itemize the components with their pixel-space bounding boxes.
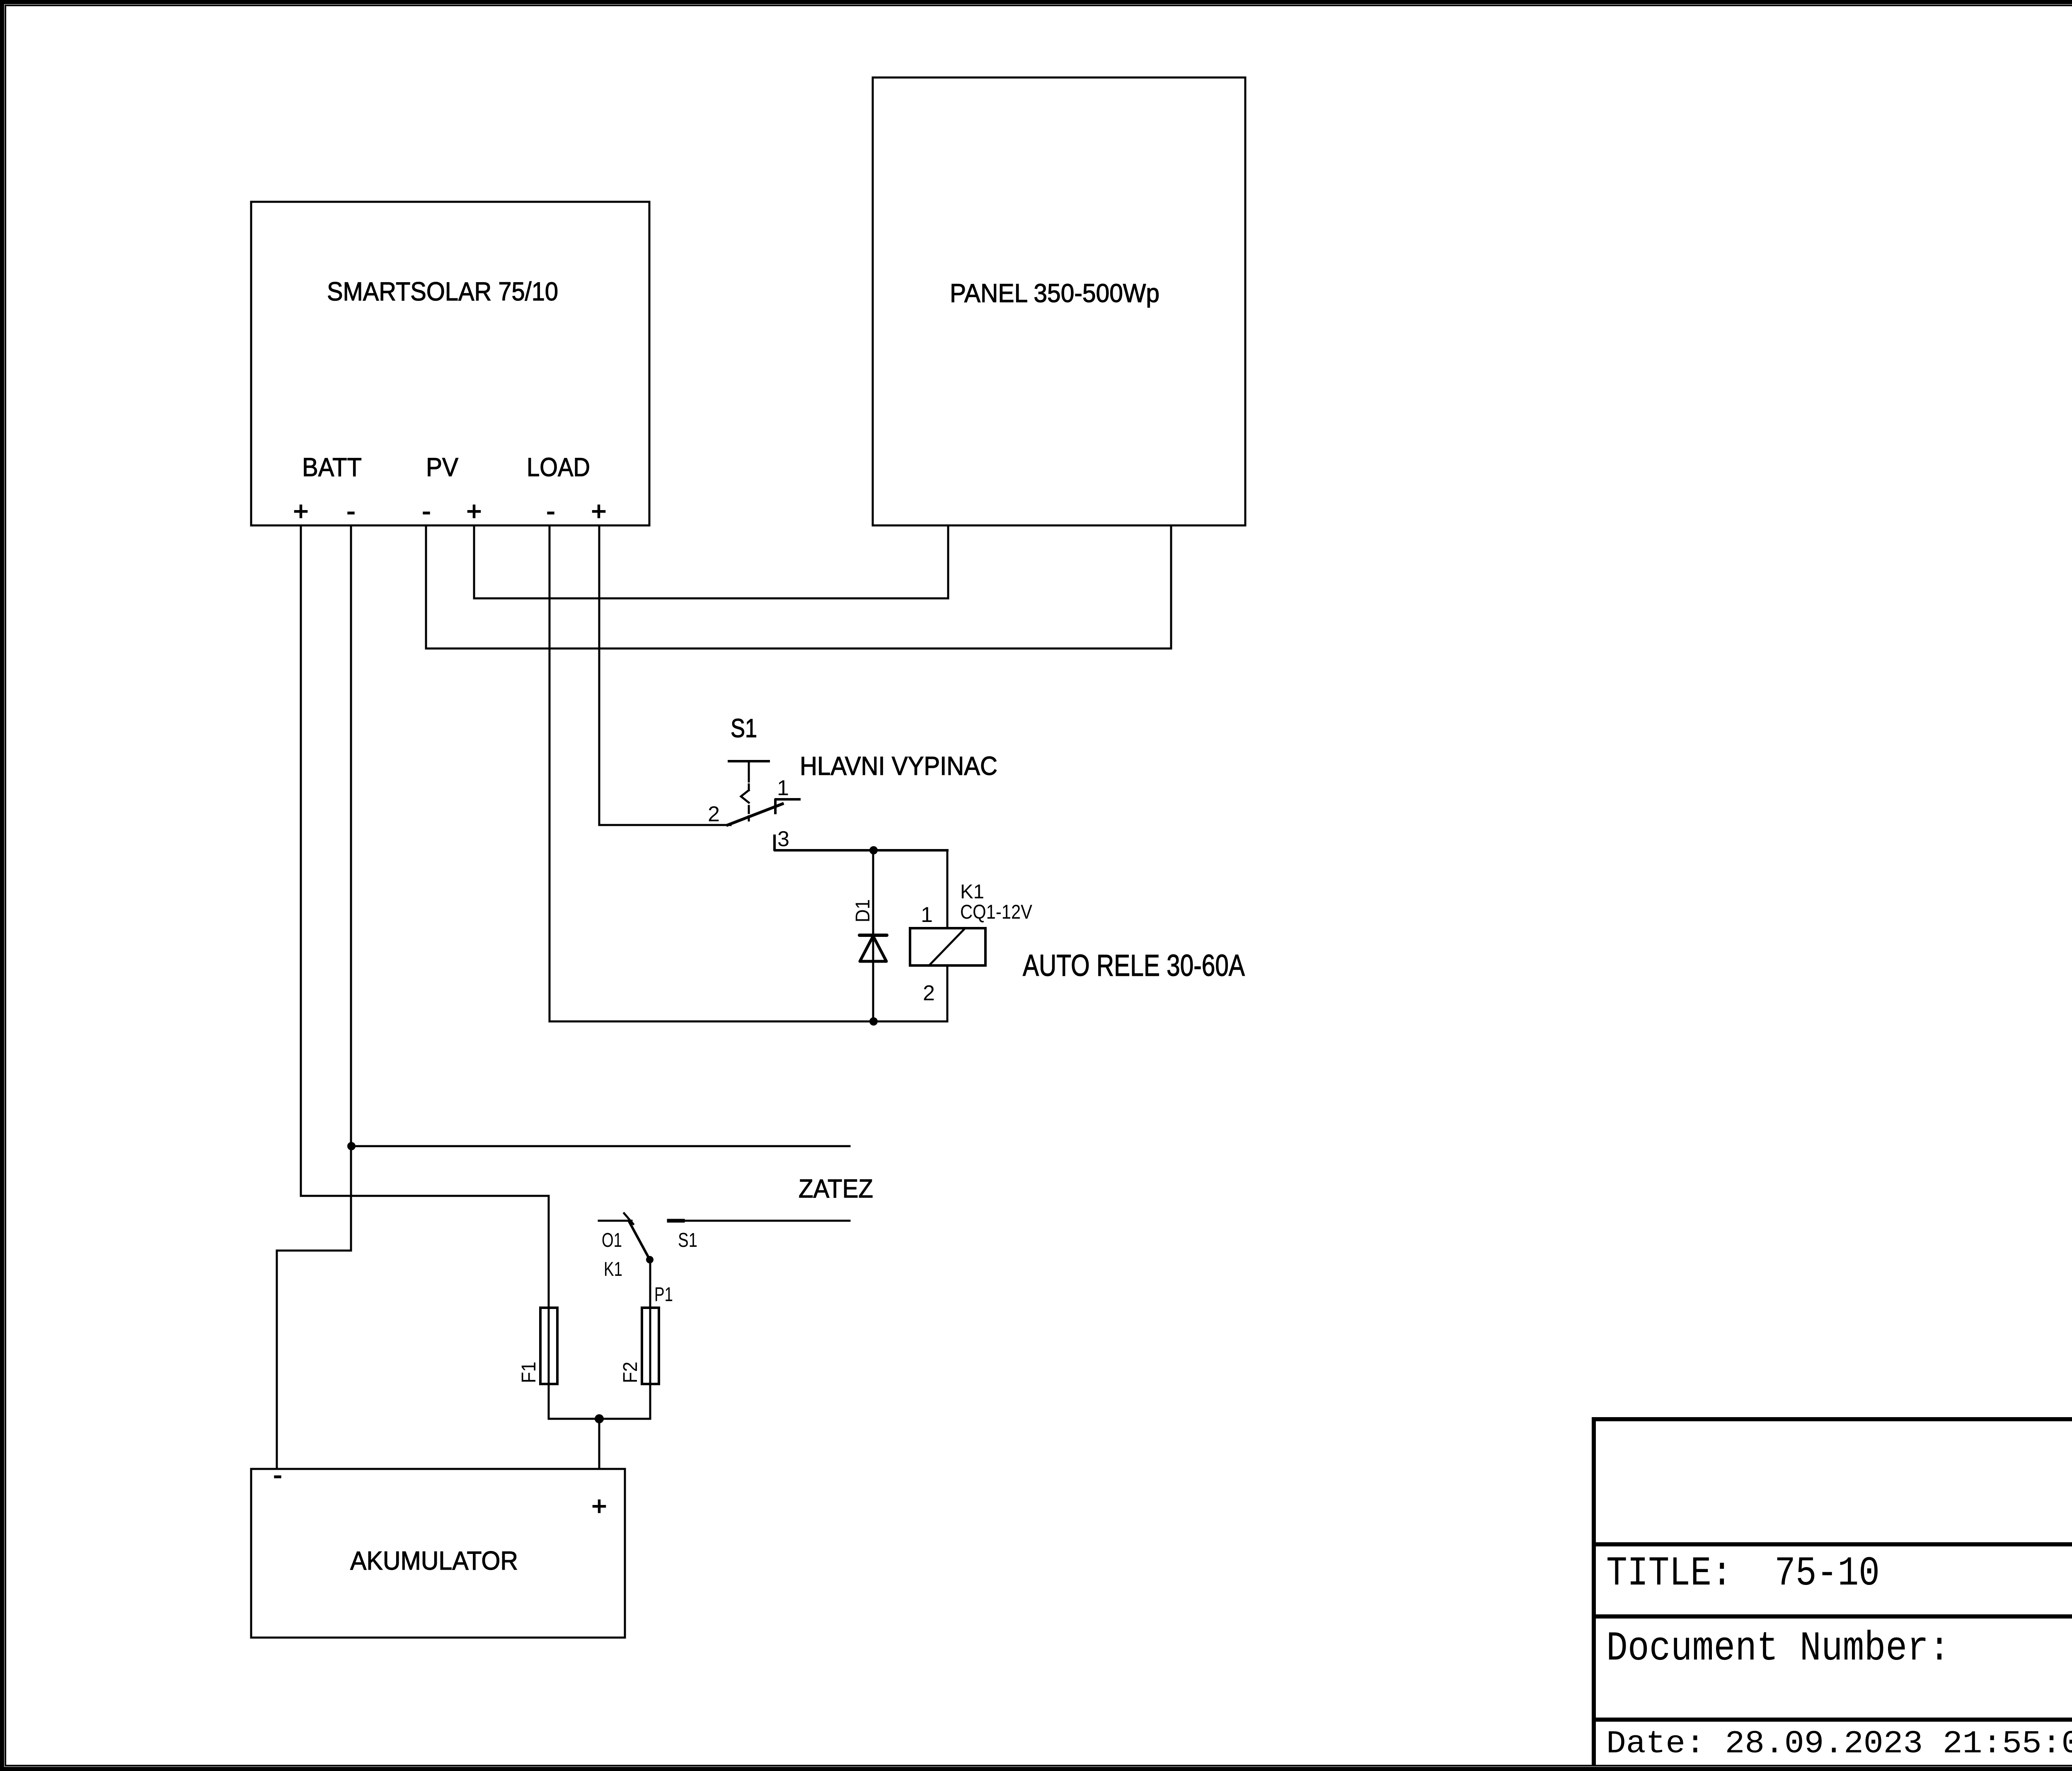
wire battery plus rail	[549, 1418, 650, 1420]
svg-text:AUTO RELE 30-60A: AUTO RELE 30-60A	[1023, 949, 1245, 982]
switch S1 actuator zigzag	[741, 790, 749, 803]
relay contact O1 tick	[624, 1213, 633, 1224]
svg-text:+: +	[591, 497, 607, 526]
wire BATT- vertical from controller	[277, 525, 351, 1469]
svg-text:F2: F2	[620, 1362, 641, 1383]
wire relay pin 2 lead	[946, 965, 949, 1021]
junction dot battery plus	[595, 1414, 604, 1423]
battery box AKUMULATOR	[251, 1469, 625, 1638]
relay contact O1 fixed lead	[599, 1220, 632, 1222]
fuse F1 internal wire	[548, 1196, 550, 1419]
junction dot below O1 blade	[646, 1256, 654, 1263]
title block line above TITLE row	[1592, 1542, 2072, 1546]
wire relay pin 1 lead	[946, 850, 949, 928]
svg-text:LOAD: LOAD	[527, 453, 590, 482]
junction dot diode bottom	[869, 1017, 878, 1026]
fuse F2 body	[642, 1308, 659, 1384]
wire PV+ from controller to panel	[474, 525, 948, 598]
switch S1 blade	[728, 804, 782, 825]
diode D1 triangle	[860, 936, 886, 961]
svg-text:1: 1	[921, 903, 933, 927]
wire LOAD- vertical to relay bottom rail	[549, 525, 947, 1021]
switch S1 actuator dash lower	[748, 806, 750, 813]
switch S1 actuator dash	[748, 784, 750, 790]
svg-text:PV: PV	[426, 453, 458, 482]
svg-text:Date: 28.09.2023 21:55:06: Date: 28.09.2023 21:55:06	[1606, 1726, 2072, 1762]
fuse F1 body	[540, 1308, 557, 1384]
title block line above Date row	[1592, 1718, 2072, 1722]
svg-text:S1: S1	[678, 1229, 697, 1251]
junction node 3 dot at diode	[869, 846, 878, 854]
controller U1 SMARTSOLAR 75/10 box	[251, 202, 649, 525]
svg-text:-: -	[274, 1461, 282, 1490]
svg-text:3: 3	[777, 827, 789, 851]
svg-text:AKUMULATOR: AKUMULATOR	[350, 1546, 518, 1575]
relay contact O1 blade	[629, 1221, 650, 1260]
svg-text:K1: K1	[960, 881, 984, 903]
svg-text:TITLE: 75-10: TITLE: 75-10	[1606, 1551, 1880, 1597]
wire battery plus lead	[598, 1419, 600, 1469]
relay K1 coil diagonal	[929, 928, 965, 965]
switch S1 actuator T-bar	[729, 760, 769, 762]
svg-text:F1: F1	[518, 1362, 540, 1383]
wire ZATEZ plus rail from S1	[669, 1220, 850, 1222]
svg-text:SMARTSOLAR 75/10: SMARTSOLAR 75/10	[327, 277, 558, 306]
solar panel box PANEL 350-500Wp	[873, 77, 1245, 525]
svg-text:PANEL 350-500Wp: PANEL 350-500Wp	[950, 279, 1159, 308]
relay K1 coil box	[910, 928, 985, 965]
svg-text:HLAVNI VYPINAC: HLAVNI VYPINAC	[800, 752, 997, 781]
svg-text:K1: K1	[604, 1258, 622, 1280]
switch S1 actuator dash end	[748, 816, 750, 820]
title block line below TITLE row	[1592, 1614, 2072, 1619]
svg-text:1: 1	[777, 776, 789, 800]
svg-text:D1: D1	[852, 899, 874, 922]
switch S1 actuator stem	[748, 761, 750, 781]
svg-text:BATT: BATT	[302, 453, 362, 482]
svg-text:CQ1-12V: CQ1-12V	[960, 901, 1032, 923]
wire diode D1 lead through	[872, 850, 874, 1021]
switch S1 fixed contact pin 3 hook and node 3 rail wire	[775, 836, 947, 850]
svg-text:Document Number:: Document Number:	[1606, 1626, 1950, 1672]
svg-text:O1: O1	[602, 1229, 622, 1251]
title block left edge	[1592, 1419, 1596, 1766]
wire PV- from controller to panel	[426, 525, 1171, 648]
title block top edge	[1592, 1417, 2072, 1421]
svg-text:+: +	[467, 497, 482, 526]
diode D1 cathode bar	[859, 934, 887, 937]
svg-text:-: -	[422, 497, 431, 526]
svg-text:2: 2	[708, 802, 720, 826]
svg-text:+: +	[293, 497, 309, 526]
svg-text:+: +	[592, 1492, 607, 1521]
svg-text:-: -	[347, 497, 356, 526]
switch S1 load contact stub	[669, 1219, 683, 1223]
svg-text:ZATEZ: ZATEZ	[799, 1174, 873, 1203]
wire BATT+ vertical from controller	[301, 525, 549, 1196]
fuse F2 internal wire	[649, 1260, 651, 1419]
junction dot ZATEZ minus rail	[347, 1142, 356, 1150]
wire LOAD+ vertical to switch S1 pivot	[599, 525, 731, 825]
svg-text:P1: P1	[654, 1284, 673, 1306]
svg-text:-: -	[547, 497, 555, 526]
switch S1 fixed contact pin 1 hook	[775, 799, 799, 813]
wire ZATEZ minus rail	[351, 1145, 850, 1147]
svg-text:2: 2	[923, 981, 935, 1005]
svg-text:S1: S1	[731, 714, 757, 743]
